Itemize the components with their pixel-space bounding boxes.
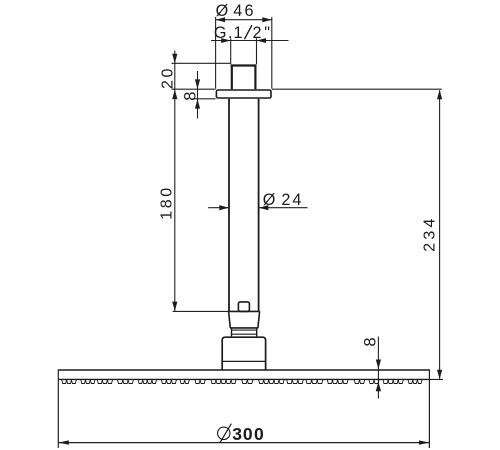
svg-text:Ø24: Ø24 bbox=[263, 191, 302, 209]
svg-text:8: 8 bbox=[181, 92, 199, 101]
svg-text:300: 300 bbox=[232, 424, 264, 444]
svg-text:20: 20 bbox=[159, 66, 176, 89]
svg-text:180: 180 bbox=[158, 185, 175, 220]
svg-text:234: 234 bbox=[421, 215, 438, 251]
svg-text:8: 8 bbox=[361, 337, 379, 346]
svg-text:Ø46: Ø46 bbox=[216, 2, 254, 20]
